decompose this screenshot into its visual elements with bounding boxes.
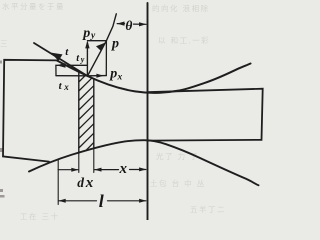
theta dim left head xyxy=(117,22,125,26)
svg-text:p: p xyxy=(109,66,117,81)
left bar xyxy=(3,60,58,162)
center line xyxy=(147,3,149,220)
top roll arc xyxy=(57,61,251,93)
theta dim right arrow tail xyxy=(134,23,147,25)
p arrowhead xyxy=(96,43,105,52)
svg-text:y: y xyxy=(90,31,96,41)
theta dim right head xyxy=(139,22,146,26)
l dim lines xyxy=(59,200,97,202)
l left head (points left) xyxy=(58,199,65,203)
right bar xyxy=(147,89,263,141)
hatching of element strip xyxy=(79,75,94,150)
svg-text:p: p xyxy=(82,26,90,41)
svg-text:土包 台 中 丛: 土包 台 中 丛 xyxy=(150,178,206,188)
svg-text:工在 三十: 工在 三十 xyxy=(20,211,60,220)
x right head (points right) xyxy=(139,167,146,171)
svg-text:θ: θ xyxy=(125,18,132,33)
arrowheads xyxy=(51,22,146,203)
svg-text:x: x xyxy=(63,82,69,92)
svg-text:x: x xyxy=(119,161,128,177)
ink speck left edge D xyxy=(0,61,2,64)
svg-text:p: p xyxy=(111,37,119,52)
p rectangle top and right xyxy=(87,41,106,76)
bottom roll arc xyxy=(29,140,259,185)
svg-text:的向化 浪相除: 的向化 浪相除 xyxy=(152,3,210,13)
dx left head (points right) xyxy=(71,168,78,172)
svg-text:x: x xyxy=(117,73,123,83)
svg-text:水平分量を于量: 水平分量を于量 xyxy=(2,1,65,11)
p_y arrowhead xyxy=(85,40,89,48)
dx/x shared head (points left) xyxy=(94,168,101,172)
ink speck left edge A xyxy=(0,148,3,152)
strip dim extension lines xyxy=(78,153,80,173)
theta dim left arrow tail xyxy=(117,23,124,25)
svg-text:光了 力 了: 光了 力 了 xyxy=(156,151,199,161)
element strip edges xyxy=(78,72,80,153)
p arrow and theta line xyxy=(88,14,117,76)
svg-text:x: x xyxy=(85,175,94,191)
t arrowhead xyxy=(51,53,63,61)
svg-text:y: y xyxy=(80,55,85,64)
svg-text:五羊丁二: 五羊丁二 xyxy=(190,204,226,214)
svg-text:l: l xyxy=(99,191,104,211)
x dim lines xyxy=(58,169,78,171)
p_x arrowhead xyxy=(96,74,103,78)
p_y arrow line xyxy=(86,43,88,76)
t-rectangle xyxy=(56,65,87,75)
t_x arrowhead on rect top edge xyxy=(56,63,65,68)
p_x arrow line xyxy=(88,75,107,77)
tangent t line xyxy=(34,43,88,76)
ink speck left edge C xyxy=(0,195,5,198)
extension line at entry projection xyxy=(57,160,59,205)
svg-text:以 和工,一彩: 以 和工,一彩 xyxy=(158,35,210,45)
svg-text:d: d xyxy=(77,175,84,190)
l right head (points right) xyxy=(139,199,146,203)
ink speck left edge B xyxy=(0,189,3,192)
svg-text:三: 三 xyxy=(0,39,8,48)
